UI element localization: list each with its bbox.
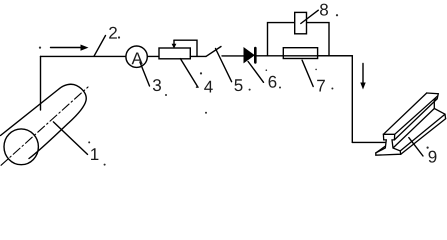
leader 4 <box>180 59 198 88</box>
leader 1 <box>53 122 87 154</box>
label 1 <box>91 148 98 160</box>
near profile <box>376 134 401 155</box>
foot top-right long edge <box>400 114 445 151</box>
label 9 <box>429 151 437 163</box>
label 8 <box>320 4 328 16</box>
head top-left long edge <box>383 93 426 134</box>
shunt branch wires <box>268 23 330 56</box>
head bottom-right long edge <box>394 99 437 140</box>
web bottom-right long edge <box>393 109 434 149</box>
speckle dots <box>39 14 429 166</box>
cylinder 1 body <box>1 84 89 165</box>
label 7 <box>317 80 325 92</box>
head top-right long edge <box>395 96 438 134</box>
label 3 <box>153 79 161 91</box>
resistor R7 <box>283 48 317 59</box>
wire ammeter to rheostat <box>147 55 159 57</box>
foot far-left hidden edge <box>376 146 386 153</box>
wire resistor7 to right corner <box>318 55 353 57</box>
rheostat R4 <box>159 40 197 59</box>
current arrow right down <box>360 64 365 90</box>
foot bottom long edge <box>401 119 446 155</box>
leader 8 <box>301 10 319 23</box>
current arrow left <box>51 45 89 51</box>
leader 3 <box>140 62 150 86</box>
diode V6 <box>244 48 255 62</box>
wire rheostat to switch <box>190 55 206 57</box>
label 4 <box>204 81 213 93</box>
switch S5 blade <box>206 47 221 57</box>
component 8 box <box>295 12 307 33</box>
wire switch to diode <box>222 55 244 57</box>
node tick 2 <box>94 36 106 57</box>
wire left horizontal <box>41 55 126 57</box>
label 2 <box>109 27 117 39</box>
leader 7 <box>302 60 313 86</box>
label A <box>132 53 143 65</box>
leader 6 <box>248 62 263 83</box>
ammeter U A <box>126 46 147 67</box>
leader 5 <box>216 49 232 82</box>
label 6 <box>269 76 277 88</box>
label 5 <box>234 79 242 91</box>
wire bottom to rail <box>352 141 386 143</box>
wire left vertical <box>40 56 42 110</box>
wire right vertical <box>351 56 353 143</box>
wire diode to resistor 7 <box>257 55 353 57</box>
leader 9 <box>409 138 423 156</box>
far end face <box>427 93 446 119</box>
rail 9 <box>376 93 446 155</box>
